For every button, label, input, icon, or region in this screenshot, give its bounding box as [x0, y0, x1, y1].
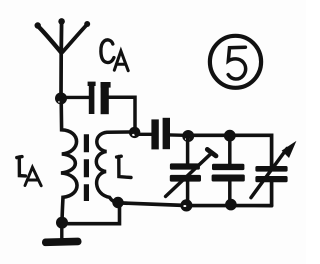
wire series capacitor to top rail — [170, 133, 184, 137]
label LA — [17, 157, 41, 186]
variable capacitor C2 branch wires — [186, 138, 190, 203]
bottom rail junction dot 1 — [180, 199, 192, 211]
inductor L (top wire + coil) — [96, 132, 134, 203]
top rail wire — [184, 135, 272, 166]
wire node B to series capacitor — [136, 133, 151, 136]
series capacitor C1 — [151, 118, 170, 150]
node A junction dot (antenna / CA / LA) — [55, 92, 67, 104]
variable capacitor C2 arrow — [166, 149, 216, 196]
ground node junction dot — [56, 217, 68, 229]
antenna — [35, 18, 91, 98]
transformer core (dashed) — [84, 134, 89, 201]
capacitor C3 plates — [212, 164, 245, 182]
bottom rail junction dot 2 — [225, 199, 237, 211]
label L — [117, 156, 131, 177]
capacitor C3 branch wires — [228, 138, 232, 202]
variable capacitor C4 arrow — [251, 144, 294, 197]
variable capacitor C4 plates — [255, 166, 287, 182]
variable capacitor C2 plates — [170, 163, 201, 181]
capacitor CA — [88, 82, 111, 115]
ground — [42, 224, 82, 246]
node B junction dot (CA / L top / series cap) — [129, 127, 140, 138]
bottom rail wire — [120, 203, 272, 206]
wire L bottom jog to ground node — [64, 204, 120, 224]
inductor LA — [61, 100, 77, 219]
node L-bottom junction dot — [112, 197, 123, 208]
figure number circled 5 — [210, 36, 261, 88]
top rail junction dot 2 — [224, 130, 236, 142]
variable capacitor C4 branch wires — [270, 182, 274, 206]
wire CA to node B — [109, 97, 135, 130]
top rail junction dot 1 — [182, 130, 194, 142]
label CA — [101, 40, 128, 71]
wire node A to CA — [63, 96, 90, 99]
